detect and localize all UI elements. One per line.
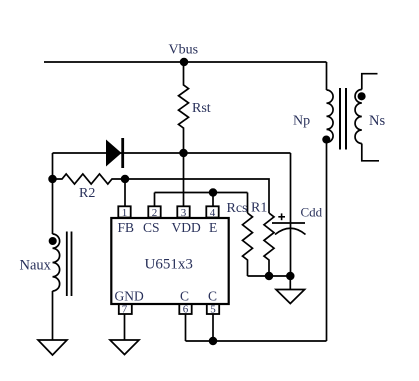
capacitor Cdd bottom curved plate [275,228,306,234]
wire Ns top stub [362,74,378,90]
pin 5 box [207,304,219,314]
wire CS bus [155,192,248,194]
pin 7 box [119,304,132,314]
pin 4 box [206,206,218,217]
svg-text:Vbus: Vbus [169,43,199,58]
wire FB drop [124,179,126,207]
wire E bus to R1 [125,179,269,213]
resistor Rcs [243,213,253,276]
wire Rcs drop [247,193,249,214]
svg-text:C: C [208,289,217,304]
svg-text:Rst: Rst [192,101,211,116]
ground Naux [38,340,67,355]
node E junction [210,189,217,196]
wire diode bus [53,152,291,154]
wire Np top feed [326,62,328,90]
svg-text:1: 1 [122,207,128,219]
svg-text:FB: FB [118,220,135,235]
svg-text:Rcs: Rcs [227,201,248,216]
svg-text:Np: Np [293,114,310,129]
wire Naux feed [52,179,54,234]
svg-text:6: 6 [183,304,189,316]
svg-text:E: E [209,220,217,235]
wire bottom bus [186,340,327,342]
transformer core [340,88,346,150]
winding Ns [355,90,362,144]
svg-text:7: 7 [122,304,128,316]
Naux core [67,232,72,297]
node R2 right / FB [122,176,129,183]
diode D1 [106,138,124,168]
wire pin5 drop [212,314,214,341]
wire Ns bottom stub [362,144,379,161]
svg-text:R2: R2 [79,186,95,201]
svg-text:VDD: VDD [172,220,201,235]
node Cdd bottom [287,273,294,280]
pin 6 box [179,304,191,314]
wire E drop [212,193,214,207]
wire analog bottom bus [248,275,291,277]
IC U651x3 body [111,218,228,304]
dot Np polarity [323,136,329,142]
ground IC GND [110,340,139,355]
svg-text:Cdd: Cdd [301,205,323,220]
wire VDD drop [183,153,185,207]
wire Cdd riser [290,153,292,276]
ground Cdd [276,276,305,304]
svg-text:2: 2 [152,207,158,219]
pin 3 box [177,206,189,217]
dot Naux polarity [50,238,56,244]
winding Naux [53,234,60,291]
svg-text:5: 5 [210,304,216,316]
svg-text:GND: GND [115,289,144,304]
svg-text:Naux: Naux [20,258,52,274]
resistor Rst [179,62,189,153]
svg-text:Ns: Ns [369,113,385,129]
node bottom junction [210,338,217,345]
wire Vbus bus [44,61,327,63]
svg-text:3: 3 [181,207,187,219]
node VDD/diode junction [180,150,187,157]
wire pin6 drop [185,314,187,341]
svg-text:4: 4 [210,207,216,219]
resistor R1 [264,213,274,276]
node R1 bottom [266,273,273,280]
svg-text:R1: R1 [251,201,267,216]
wire left corner drop [52,153,54,179]
pin 1 box [118,206,130,217]
svg-text:CS: CS [143,220,160,235]
capacitor Cdd top plate [272,222,305,224]
wire GND drop [124,314,126,340]
dot Ns polarity [358,93,364,99]
wire Naux bottom [52,291,54,340]
node Vbus/Rst junction [181,59,188,66]
plus sign [278,213,285,220]
svg-text:C: C [180,289,189,304]
pin 2 box [148,206,160,217]
wire right riser [326,143,328,342]
node R2 left [49,176,56,183]
svg-text:U651x3: U651x3 [145,257,193,273]
resistor R2 [53,174,126,184]
winding Np [327,90,334,143]
wire CS riser [154,193,156,207]
